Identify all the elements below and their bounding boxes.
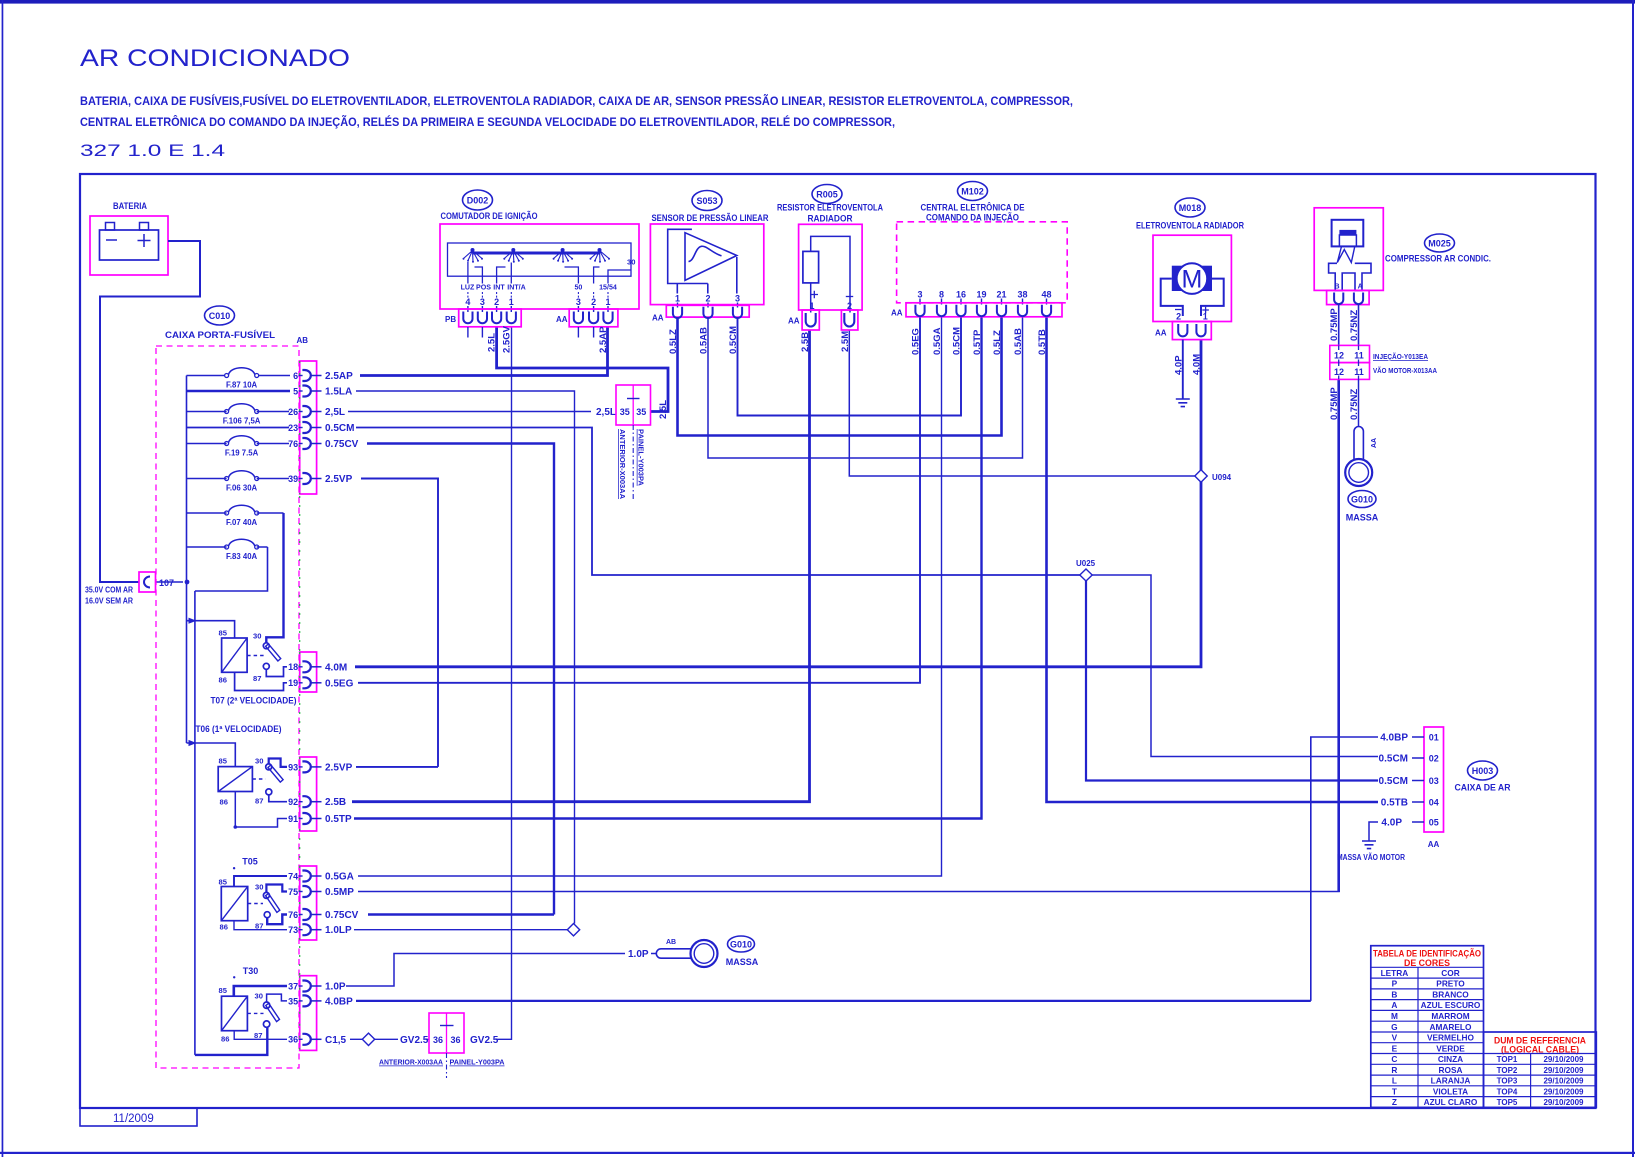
D002 rotary contact sprays [464,251,610,262]
svg-text:G: G [1391,1022,1397,1032]
svg-text:PB: PB [445,315,456,324]
svg-text:1.0P: 1.0P [628,949,649,960]
battery B000 BATERIA [90,201,168,275]
svg-text:AA: AA [652,314,664,323]
svg-text:75: 75 [288,887,298,897]
svg-text:11: 11 [1354,367,1364,377]
svg-text:3: 3 [480,297,485,307]
M102 pin numbers 3 8 16 19 21 38 48 [917,290,1051,300]
svg-text:V: V [1392,1033,1398,1043]
svg-text:15/54: 15/54 [599,284,617,292]
svg-text:30: 30 [253,632,261,641]
svg-text:2.5VP: 2.5VP [325,474,353,485]
svg-text:INT: INT [493,284,505,292]
connector strip S4 T05 [300,866,317,940]
svg-text:AA: AA [891,309,903,318]
svg-text:0.5CM: 0.5CM [1379,754,1408,765]
svg-text:0.5EG: 0.5EG [911,328,922,355]
svg-text:SENSOR DE PRESSÃO LINEAR: SENSOR DE PRESSÃO LINEAR [652,213,769,224]
air box H003 CAIXA DE AR [1424,727,1511,849]
M102 oval designator [958,182,988,201]
svg-text:RESISTOR ELETROVENTOLA: RESISTOR ELETROVENTOLA [777,203,883,214]
connector strip S3 T06 [300,757,317,831]
sensor S053 SENSOR DE PRESSAO LINEAR [650,191,768,323]
pin 39 wire label 2.5VP [288,473,352,485]
svg-text:16: 16 [956,290,966,300]
svg-text:H003: H003 [1472,766,1494,776]
svg-text:0.75CV: 0.75CV [325,439,359,450]
svg-text:RADIADOR: RADIADOR [808,214,853,225]
ignition switch D002 COMUTADOR DE IGNICAO [440,190,639,309]
node junction on bus at 107 [185,580,190,585]
svg-text:23: 23 [288,423,298,433]
svg-text:87: 87 [254,1031,262,1040]
svg-text:AZUL ESCURO: AZUL ESCURO [1421,1000,1481,1010]
svg-text:LUZ: LUZ [461,284,475,292]
wire net 1.5LA fuse5 to splice [356,391,575,924]
S053 response curve [689,246,722,261]
relay T30 [219,966,288,1044]
M025 body box [1314,208,1383,291]
fuse F.19 7.5A [187,436,290,458]
fuse F.87 10A [187,368,291,390]
pin 37 wire label 1.0P [288,981,346,993]
M018 oval designator [1175,198,1205,217]
svg-text:CINZA: CINZA [1438,1054,1463,1064]
svg-text:VÃO MOTOR-X013AA: VÃO MOTOR-X013AA [1373,366,1437,375]
pin 19 wire label 0.5EG [288,677,353,689]
fuse bus vertical A [186,376,188,744]
svg-text:MASSA VÃO MOTOR: MASSA VÃO MOTOR [1337,853,1405,862]
wire GV2.5 diamond to connector [375,1038,398,1040]
svg-text:F.87 10A: F.87 10A [226,381,258,390]
svg-text:86: 86 [221,1035,229,1044]
svg-text:VERDE: VERDE [1436,1043,1465,1053]
pin 73 wire label 1.0LP [288,924,352,936]
svg-text:93: 93 [288,762,298,772]
svg-text:1: 1 [509,297,514,307]
svg-text:ELETROVENTOLA RADIADOR: ELETROVENTOLA RADIADOR [1136,221,1244,232]
svg-text:DE CORES: DE CORES [1404,958,1450,968]
svg-text:GV2.5: GV2.5 [470,1035,499,1046]
svg-text:2.5B: 2.5B [800,332,811,352]
node U025 [1076,559,1096,581]
svg-text:PRETO: PRETO [1436,979,1465,989]
svg-text:74: 74 [288,871,298,881]
svg-text:D002: D002 [467,196,489,206]
svg-text:85: 85 [219,757,228,766]
svg-text:AA: AA [788,317,800,326]
svg-text:2.5L: 2.5L [487,333,498,352]
splice node diamond C1,5/GV2.5 [362,1033,374,1045]
pin 23 wire label 0.5CM [288,422,354,434]
svg-text:8: 8 [939,290,944,300]
svg-text:A: A [1391,1000,1397,1010]
svg-text:29/10/2009: 29/10/2009 [1543,1055,1584,1064]
svg-text:F.83 40A: F.83 40A [226,552,258,561]
M025 clutch solenoid symbol [1332,220,1364,247]
svg-text:TOP3: TOP3 [1497,1077,1518,1086]
svg-text:05: 05 [1429,817,1439,827]
svg-text:29/10/2009: 29/10/2009 [1543,1066,1584,1075]
svg-text:2: 2 [705,294,710,304]
svg-text:0.5GA: 0.5GA [932,327,943,355]
wire net 0.5GA T05 74 to M102 8 [358,317,942,876]
svg-text:26: 26 [288,407,298,417]
M102 connector AA [906,303,1062,317]
svg-text:TOP5: TOP5 [1497,1098,1518,1107]
svg-text:86: 86 [220,798,228,807]
wire net 0.5LZ S053 1 to M102 21 [678,317,1002,436]
svg-text:S053: S053 [696,196,717,206]
svg-text:AA: AA [1155,329,1167,338]
pin 75 wire label 0.5MP [288,886,354,898]
page border bottom [0,1152,1635,1154]
wire net 0.5CM U025 to H003 03 [1086,581,1378,781]
H003 pin dashes [1412,737,1424,822]
svg-text:TOP2: TOP2 [1497,1066,1518,1075]
pin 76 wire label 0.75CV [288,909,359,921]
svg-text:85: 85 [219,986,228,995]
svg-text:AA: AA [1428,840,1440,849]
R005 oval designator [812,185,842,204]
svg-text:11: 11 [1354,350,1364,360]
wire net 0.5MP T05 75 to 0.75MP [358,891,1340,893]
svg-text:0.5CM: 0.5CM [1379,776,1408,787]
svg-text:M018: M018 [1179,203,1202,213]
wire net 1.0LP T05 to splice [354,929,568,931]
svg-text:48: 48 [1041,290,1051,300]
svg-text:BATERIA: BATERIA [113,201,147,212]
wire net 2.5AP fuse6 to D002 [360,327,608,376]
svg-text:POS: POS [476,284,491,292]
svg-text:04: 04 [1429,797,1439,807]
svg-text:AZUL CLARO: AZUL CLARO [1424,1097,1478,1107]
svg-text:2,5L: 2,5L [658,400,669,419]
wire 0.75MP 0.75NZ compressor to connector [1339,305,1359,346]
fan motor M018 ELETROVENTOLA RADIADOR [1136,198,1244,340]
svg-text:CENTRAL ELETRÔNICA DO COMANDO: CENTRAL ELETRÔNICA DO COMANDO DA INJEÇÃO… [80,116,895,129]
M025 connector pins B A [1327,290,1370,304]
svg-text:85: 85 [219,629,228,638]
svg-text:T05: T05 [242,857,258,867]
node U094 [1195,470,1232,482]
fuse F.106 7,5A [187,404,290,426]
svg-text:30: 30 [255,992,263,1001]
wire net 0.75MP compressor to junction [1337,379,1340,892]
svg-text:86: 86 [219,676,227,685]
svg-text:21: 21 [996,290,1006,300]
svg-text:87: 87 [253,674,261,683]
svg-text:CAIXA DE AR: CAIXA DE AR [1455,783,1511,794]
svg-text:2,5L: 2,5L [325,407,345,418]
R005 connector AA [802,310,819,330]
svg-text:E: E [1392,1043,1398,1053]
svg-text:4.0M: 4.0M [325,662,347,673]
svg-text:MASSA: MASSA [1346,513,1379,523]
svg-text:19: 19 [288,678,298,688]
fuse F.83 40A [187,539,268,561]
svg-text:2,5L: 2,5L [596,407,616,418]
svg-text:0.75CV: 0.75CV [325,910,359,921]
wire net 0.5TP T06 91 to M102 19 [354,317,982,819]
connector strip S2 T07 [300,652,317,692]
svg-text:0.75MP: 0.75MP [1329,308,1340,341]
svg-text:MARROM: MARROM [1431,1011,1469,1021]
wire net 0.5CM fuse23 to U025 [356,428,1080,576]
svg-text:F.19 7.5A: F.19 7.5A [225,449,259,458]
svg-text:2.5B: 2.5B [325,797,346,808]
S053 oval designator [692,191,722,211]
svg-text:COMUTADOR DE IGNIÇÃO: COMUTADOR DE IGNIÇÃO [441,211,538,222]
svg-text:29/10/2009: 29/10/2009 [1543,1087,1584,1096]
svg-text:0.5CM: 0.5CM [325,423,354,434]
svg-text:36: 36 [433,1035,443,1045]
wire battery positive to fuse bus [100,241,200,582]
svg-text:0.5MP: 0.5MP [325,887,354,898]
svg-text:4.0P: 4.0P [1381,818,1402,829]
svg-text:TOP1: TOP1 [1497,1055,1518,1064]
svg-text:Z: Z [1392,1097,1397,1107]
relay T06 (1a velocidade) [196,724,288,829]
svg-text:AB: AB [297,336,309,345]
svg-text:39: 39 [288,474,298,484]
svg-text:INJEÇÃO-Y013EA: INJEÇÃO-Y013EA [1373,352,1428,361]
svg-text:C010: C010 [209,311,231,321]
svg-text:35: 35 [620,407,630,417]
svg-text:M: M [1391,1011,1398,1021]
svg-text:92: 92 [288,797,298,807]
svg-text:0.5LZ: 0.5LZ [668,329,679,354]
svg-text:ANTERIOR-X003AA: ANTERIOR-X003AA [379,1058,444,1067]
svg-text:0.5LZ: 0.5LZ [992,330,1003,355]
color table TABELA DE IDENTIFICACAO DE CORES [1371,946,1484,1108]
svg-text:02: 02 [1429,753,1439,763]
svg-text:12: 12 [1334,350,1344,360]
page border top bar [0,0,1635,4]
M018 connector AA [1172,322,1211,340]
relay T07 (2a velocidade) [211,629,297,706]
svg-text:4.0BP: 4.0BP [1380,733,1408,744]
svg-text:0.5EG: 0.5EG [325,678,354,689]
svg-text:19: 19 [976,290,986,300]
svg-text:50: 50 [574,284,582,292]
svg-text:87: 87 [255,797,263,806]
svg-text:2.5AP: 2.5AP [325,371,353,382]
pin 93 wire label 2.5VP [288,761,352,773]
pin 6 wire label 2.5AP [293,370,353,382]
svg-text:30: 30 [627,258,635,267]
svg-text:0.5AB: 0.5AB [699,327,710,354]
svg-text:GV2.5: GV2.5 [400,1035,429,1046]
wire net 2,5L fuse26 to inline connector [348,411,591,413]
svg-text:2.5M: 2.5M [840,331,851,352]
svg-text:G010: G010 [730,940,752,950]
svg-text:87: 87 [255,922,263,931]
svg-text:2.5GV: 2.5GV [502,325,513,353]
svg-text:T30: T30 [243,966,259,976]
page border right [1632,0,1634,1157]
svg-text:T07 (2ª VELOCIDADE): T07 (2ª VELOCIDADE) [211,696,297,706]
svg-text:0.5TP: 0.5TP [972,329,983,355]
pin 5 wire label 1.5LA [293,386,352,398]
svg-text:1: 1 [605,297,610,307]
resistor R005 RESISTOR ELETROVENTOLA RADIADOR [777,185,883,331]
M102 ECU dashed body [897,222,1068,303]
H003 connector strip pins 01-05 [1424,727,1444,832]
R005 resistor element [803,251,819,283]
pin 26 wire label 2,5L [288,406,345,418]
svg-text:0.5TB: 0.5TB [1037,329,1048,355]
svg-text:COR: COR [1441,968,1459,978]
C010 oval [205,306,235,325]
svg-text:INT/A: INT/A [507,284,526,292]
svg-text:F.106 7,5A: F.106 7,5A [223,417,261,426]
svg-text:VERMELHO: VERMELHO [1427,1033,1475,1043]
svg-text:1.0LP: 1.0LP [325,925,352,936]
svg-text:4.0BP: 4.0BP [325,996,353,1007]
svg-text:3: 3 [917,290,922,300]
svg-text:BRANCO: BRANCO [1432,989,1469,999]
svg-text:0.5CM: 0.5CM [952,327,963,355]
compressor M025 COMPRESSOR AR CONDIC [1314,208,1491,305]
svg-text:2: 2 [591,297,596,307]
svg-text:76: 76 [288,439,298,449]
svg-text:TABELA DE IDENTIFICAÇÃO: TABELA DE IDENTIFICAÇÃO [1373,949,1481,959]
D002 connector PB [445,309,521,327]
svg-text:36: 36 [450,1035,460,1045]
svg-text:M025: M025 [1428,239,1451,249]
pin 18 wire label 4.0M [288,661,347,673]
svg-text:85: 85 [219,878,228,887]
ECU M102 CENTRAL ELETRONICA DE COMANDO DA INJECAO [891,182,1067,318]
svg-text:35.0V COM AR: 35.0V COM AR [85,586,133,595]
D002 internal pin step wires [468,262,631,284]
svg-text:C: C [1391,1054,1397,1064]
wire fuse row pin 5 [187,390,291,393]
svg-text:LETRA: LETRA [1381,968,1409,978]
svg-text:2: 2 [494,297,499,307]
pin 74 wire label 0.5GA [288,871,354,883]
H003 oval designator [1468,761,1498,780]
svg-text:M102: M102 [961,187,984,197]
D002 pin stubs to connectors [468,306,608,312]
fuse F.06 30A [187,471,290,493]
svg-text:30: 30 [255,883,263,892]
svg-text:AB: AB [666,939,676,946]
svg-text:0.75NZ: 0.75NZ [1349,389,1360,420]
fuse box dashed border [156,346,299,1068]
svg-text:2.5AP: 2.5AP [598,326,609,353]
svg-text:1: 1 [675,294,680,304]
D002 contact end dots [463,248,611,263]
wire T06 coil feed [187,743,236,767]
wire net C1,5 T30 36 to diamond [350,1038,362,1040]
connector 12/11 INJECAO / VAO MOTOR [1330,345,1438,379]
svg-text:ANTERIOR-X003AA: ANTERIOR-X003AA [618,429,627,500]
wire net 2.5L D002 to inline connector [497,327,668,412]
svg-text:P: P [1392,979,1398,989]
svg-text:0.5TB: 0.5TB [1381,798,1408,809]
svg-text:1.0P: 1.0P [325,982,346,993]
wire net 0.5CM S053 3 to M102 16 [738,317,962,416]
svg-text:G010: G010 [1351,495,1373,505]
svg-text:COMANDO DA INJEÇÃO: COMANDO DA INJEÇÃO [926,213,1019,224]
pin 76 wire label 0.75CV [288,438,359,450]
svg-text:MASSA: MASSA [726,957,759,967]
svg-text:3: 3 [735,294,740,304]
svg-text:L: L [1392,1076,1397,1086]
svg-text:AR CONDICIONADO: AR CONDICIONADO [80,45,350,72]
svg-text:327 1.0 E 1.4: 327 1.0 E 1.4 [80,141,225,160]
svg-text:0.5TP: 0.5TP [325,814,352,825]
ground symbol M018 4.0P [1176,399,1190,407]
D002 pin numbers [465,297,610,307]
svg-text:AMARELO: AMARELO [1430,1022,1472,1032]
svg-text:F.06 30A: F.06 30A [226,484,258,493]
D002 connector AA [556,309,618,327]
wire net 0.5EG T07 19 to M102 3 [358,317,920,683]
D002 pin names LUZ POS INT INT/A 50 15/54 [461,284,617,292]
S053 connector AA [666,305,749,317]
wire 4.0P M018 to ground [1182,340,1184,399]
wire fuse row pin 23 [187,427,290,429]
relay T05 [219,857,288,932]
svg-text:0.75MP: 0.75MP [1329,387,1340,420]
svg-text:AA: AA [1371,438,1378,448]
wire net 0.75CV fuse76 to T05 76 [367,444,554,915]
pin 36 wire label C1,5 [288,1034,346,1046]
S053 amplifier triangle symbol [685,233,737,281]
wire F.83 output to bus B [195,547,268,591]
pin 91 wire label 0.5TP [288,813,352,825]
fuse F.07 40A [187,505,284,527]
svg-text:73: 73 [288,925,298,935]
wire net 0.5TB M102 48 to H003 04 [1047,317,1379,802]
svg-text:35: 35 [288,996,298,1006]
H003 wire labels [1379,733,1409,829]
wire net 4.0BP T30 35 to compressor/H003 [356,1000,1311,1002]
wire net 2.5B T06 92 to R005 [352,330,810,802]
splice node diamond 1.0LP/1.5LA [567,924,579,936]
svg-text:30: 30 [255,757,263,766]
svg-text:3: 3 [576,297,581,307]
date box 11/2009 [80,1108,197,1126]
svg-text:4: 4 [465,297,470,307]
svg-text:76: 76 [288,910,298,920]
connector 107 [139,572,183,592]
D002 unused pin stubs [468,327,594,338]
S053 body box [650,224,763,305]
connector strip S1 fuses [300,361,317,494]
svg-text:1: 1 [1203,312,1208,322]
svg-text:R: R [1391,1065,1397,1075]
svg-text:CAIXA PORTA-FUSÍVEL: CAIXA PORTA-FUSÍVEL [165,330,275,341]
inline connector 35-35 ANTERIOR/PAINEL [616,385,651,500]
M025 oval designator [1425,234,1455,252]
svg-text:PAINEL-Y003PA: PAINEL-Y003PA [450,1058,506,1067]
svg-text:F.07 40A: F.07 40A [226,518,258,527]
svg-text:VIOLETA: VIOLETA [1433,1086,1468,1096]
svg-text:4.0M: 4.0M [1192,354,1203,375]
wire net 4.0M T07 18 to M018 [355,340,1201,667]
svg-text:1.5LA: 1.5LA [325,387,352,398]
junction arrow on T06 feed [189,740,197,746]
svg-text:0.5CM: 0.5CM [728,326,739,354]
D002 pin number dashes [468,292,608,298]
svg-text:B: B [1391,989,1397,999]
svg-text:ROSA: ROSA [1439,1065,1463,1075]
